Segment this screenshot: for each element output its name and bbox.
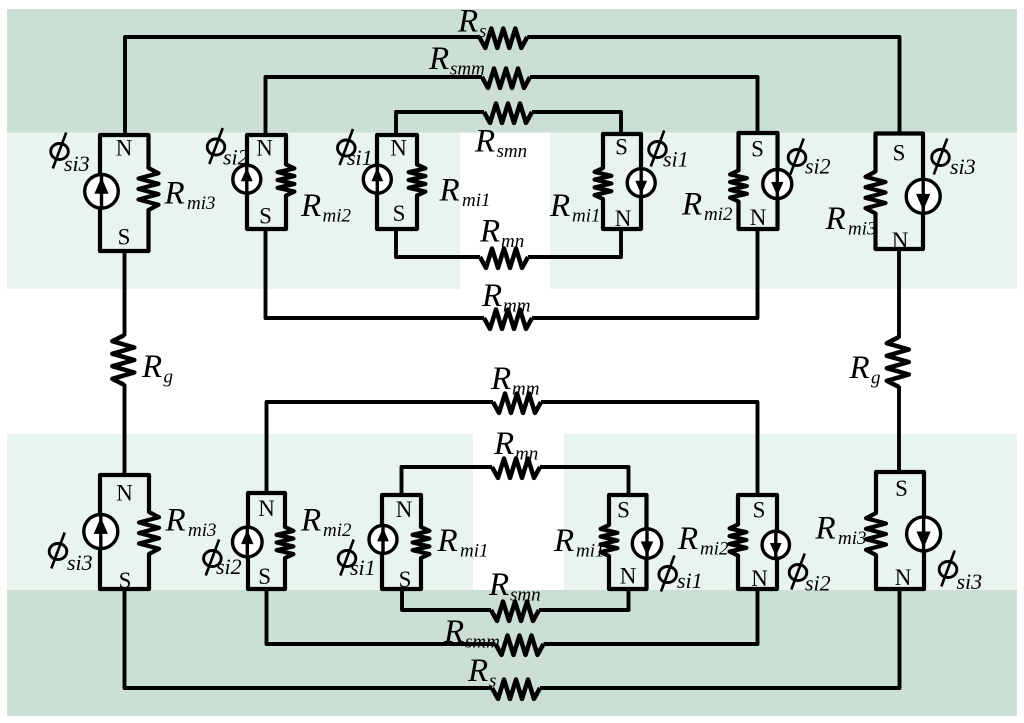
svg-text:mn: mn: [501, 231, 524, 252]
label R_mi1 top-left: [439, 173, 491, 212]
svg-text:mi3: mi3: [187, 193, 216, 214]
svg-text:R: R: [488, 567, 509, 603]
resistor R_smm bottom: [496, 636, 544, 655]
svg-text:S: S: [118, 225, 131, 250]
svg-text:s: s: [479, 21, 486, 42]
svg-text:smn: smn: [510, 585, 541, 606]
svg-text:mi2: mi2: [700, 539, 729, 560]
svg-text:R: R: [141, 349, 162, 385]
magnet box B12 phi_si3 bottom-right: [866, 472, 924, 589]
svg-text:si2: si2: [805, 154, 831, 179]
flux source phi_si1 top-left: [363, 164, 391, 195]
svg-text:si2: si2: [223, 145, 249, 170]
svg-text:N: N: [615, 206, 632, 231]
svg-text:R: R: [164, 176, 185, 212]
svg-text:R: R: [479, 214, 500, 250]
magnet region band (lower): [7, 434, 1017, 590]
svg-text:smm: smm: [450, 58, 485, 79]
svg-text:si3: si3: [950, 154, 976, 179]
label R_smm bottom: [443, 614, 500, 653]
label phi_si3 top-left: [51, 133, 90, 177]
label R_mm top: [481, 278, 530, 317]
svg-text:R: R: [428, 41, 449, 77]
resistor R_smn bottom: [491, 602, 539, 621]
magnet box B11 phi_si2 bottom-right: [730, 495, 777, 589]
label R_mm bottom: [490, 361, 539, 400]
svg-text:R: R: [849, 350, 870, 386]
label phi_si1 top-right: [649, 131, 689, 172]
svg-text:R: R: [474, 124, 495, 160]
svg-text:N: N: [390, 135, 407, 160]
svg-text:S: S: [258, 564, 271, 589]
svg-text:mi1: mi1: [572, 206, 601, 227]
label R_s bottom: [467, 653, 496, 692]
label R_smn bottom: [488, 567, 541, 606]
svg-text:N: N: [396, 497, 413, 522]
label phi_si2 bottom-left: [204, 540, 242, 580]
label phi_si1 bottom-right: [659, 556, 703, 594]
magnet box B3 phi_si1 top-left: [377, 135, 425, 229]
stator yoke band (top): [7, 9, 1017, 133]
svg-text:R: R: [439, 173, 460, 209]
svg-text:si1: si1: [347, 145, 373, 170]
svg-text:smn: smn: [497, 141, 528, 162]
svg-text:si2: si2: [805, 571, 831, 596]
label phi_si1 bottom-left: [338, 540, 375, 581]
flux source phi_si3 bottom-right: [907, 515, 941, 552]
svg-text:R: R: [553, 523, 574, 559]
label R_mi2 bottom-left: [300, 503, 352, 542]
wire: R_smn bottom loop: [402, 589, 491, 610]
label R_mi1 bottom-left: [437, 523, 489, 562]
label R_mi1 bottom-right: [553, 523, 605, 562]
label phi_si3 bottom-right: [939, 551, 982, 595]
label R_g left: [141, 349, 173, 388]
wire: R_smm bottom loop: [267, 589, 496, 644]
wire: R_g left: [123, 251, 127, 336]
label R_mi3 top-right: [825, 201, 877, 240]
resistor R_mn bottom: [492, 459, 540, 478]
label R_mi1 top-right: [549, 188, 601, 227]
label R_mn bottom: [493, 426, 538, 465]
label phi_si2 top-right: [788, 139, 830, 179]
label R_mi2 top-right: [681, 187, 733, 226]
svg-text:R: R: [300, 188, 321, 224]
flux source phi_si2 top-left: [233, 164, 261, 195]
resistor R_g right: [887, 337, 909, 387]
magnet box B2 phi_si2 top-left: [247, 135, 294, 229]
svg-text:si1: si1: [663, 147, 689, 172]
wire: R_smm top loop: [266, 77, 483, 135]
flux source phi_si3 top-left: [85, 173, 119, 210]
svg-text:R: R: [825, 201, 846, 237]
svg-text:N: N: [751, 566, 768, 591]
svg-text:N: N: [116, 481, 133, 506]
svg-text:mm: mm: [503, 296, 530, 317]
svg-text:R: R: [300, 503, 321, 539]
resistor R_mn top: [480, 249, 528, 268]
wire: R_mm top loop: [266, 229, 485, 318]
svg-text:si3: si3: [64, 151, 90, 176]
flux source phi_si2 bottom-right: [762, 530, 789, 561]
resistor R_s top: [479, 29, 527, 48]
label phi_si3 bottom-left: [49, 533, 92, 576]
svg-text:S: S: [119, 568, 132, 593]
svg-text:R: R: [677, 521, 698, 557]
svg-text:S: S: [617, 498, 630, 523]
label R_mn top: [479, 214, 524, 253]
label R_mi3 bottom-left: [165, 503, 217, 542]
svg-text:si1: si1: [350, 555, 376, 580]
magnet box B10 phi_si1 bottom-right: [601, 495, 647, 589]
svg-text:N: N: [258, 496, 275, 521]
wire: R_mm bottom loop: [267, 402, 494, 493]
magnet box B4 phi_si1 top-right: [595, 134, 641, 229]
label R_smn top: [474, 124, 527, 163]
label phi_si1 top-left: [338, 129, 373, 170]
magnet box B6 phi_si3 top-right: [866, 134, 924, 250]
flux source phi_si3 top-right: [906, 178, 940, 215]
svg-text:mi3: mi3: [188, 520, 217, 541]
svg-text:S: S: [615, 135, 628, 160]
svg-text:S: S: [751, 136, 764, 161]
svg-text:S: S: [895, 476, 908, 501]
svg-text:N: N: [116, 136, 133, 161]
flux source phi_si2 bottom-left: [233, 526, 263, 559]
label phi_si3 top-right: [932, 139, 976, 180]
stator yoke band (bottom): [7, 590, 1017, 716]
svg-text:g: g: [164, 367, 174, 388]
svg-text:S: S: [259, 204, 272, 229]
svg-text:mm: mm: [512, 379, 539, 400]
label R_mi3 top-left: [164, 176, 216, 215]
label R_mi3 bottom-right: [815, 511, 867, 550]
svg-text:si3: si3: [957, 569, 983, 594]
magnet box B9 phi_si1 bottom-left: [382, 495, 429, 589]
wire: R_s bottom loop: [125, 589, 493, 688]
svg-text:si1: si1: [677, 568, 703, 593]
magnet box B1 phi_si3 top-left: [100, 135, 159, 251]
label phi_si2 bottom-right: [789, 554, 830, 596]
magnet box B8 phi_si2 bottom-left: [248, 493, 293, 589]
wire: R_g right: [897, 249, 901, 338]
resistor R_smn top: [484, 104, 532, 123]
label R_smm top: [428, 41, 485, 79]
svg-text:N: N: [895, 565, 912, 590]
flux source phi_si3 bottom-left: [84, 513, 118, 550]
resistor R_mm bottom: [493, 394, 541, 413]
svg-text:mi1: mi1: [460, 541, 489, 562]
svg-text:N: N: [256, 136, 273, 161]
svg-text:g: g: [871, 368, 881, 389]
svg-text:N: N: [620, 564, 637, 589]
svg-text:R: R: [815, 511, 836, 547]
svg-text:R: R: [490, 361, 511, 397]
svg-text:s: s: [489, 671, 496, 692]
svg-text:R: R: [681, 187, 702, 223]
label R_mi2 top-left: [300, 188, 352, 227]
magnet box B5 phi_si2 top-right: [730, 133, 777, 229]
svg-text:si2: si2: [216, 554, 242, 579]
svg-text:R: R: [549, 188, 570, 224]
label R_s top: [457, 4, 486, 43]
svg-text:S: S: [893, 141, 906, 166]
svg-text:mi3: mi3: [848, 219, 877, 240]
label R_g right: [849, 350, 881, 389]
resistor R_s bottom: [492, 680, 540, 699]
svg-text:N: N: [750, 205, 767, 230]
wire: R_mn bottom loop: [402, 467, 493, 495]
resistor R_g left: [112, 335, 134, 385]
label phi_si2 top-left: [207, 128, 248, 170]
svg-text:R: R: [437, 523, 458, 559]
air-gap white strip (lower center): [473, 434, 564, 590]
flux source phi_si1 bottom-left: [369, 524, 397, 555]
svg-text:R: R: [457, 4, 478, 40]
flux source phi_si2 top-right: [763, 168, 792, 200]
svg-text:S: S: [753, 498, 766, 523]
magnet box B7 phi_si3 bottom-left: [100, 475, 159, 589]
resistor R_smm top: [482, 69, 530, 88]
air-gap white strip (upper center): [460, 133, 550, 290]
svg-text:S: S: [393, 201, 406, 226]
svg-text:R: R: [493, 426, 514, 462]
svg-text:R: R: [165, 503, 186, 539]
svg-text:mi2: mi2: [323, 520, 352, 541]
svg-text:si3: si3: [67, 550, 93, 575]
resistor R_mm top: [484, 310, 532, 329]
svg-text:R: R: [443, 614, 464, 650]
svg-text:mi2: mi2: [704, 204, 733, 225]
wire: R_s top loop: [125, 37, 479, 135]
magnet region band (upper): [7, 133, 1017, 290]
svg-text:mi2: mi2: [323, 206, 352, 227]
flux source phi_si1 top-right: [627, 167, 655, 198]
svg-text:mi1: mi1: [576, 541, 605, 562]
flux source phi_si1 bottom-right: [632, 527, 661, 560]
svg-text:mn: mn: [515, 444, 538, 465]
svg-text:R: R: [481, 278, 502, 314]
svg-text:N: N: [892, 228, 909, 253]
svg-text:S: S: [399, 567, 412, 592]
label R_mi2 bottom-right: [677, 521, 729, 560]
wire: R_mn top loop: [396, 229, 480, 257]
wire: R_smn top loop: [396, 112, 484, 135]
svg-text:mi3: mi3: [838, 528, 867, 549]
svg-text:R: R: [467, 653, 488, 689]
svg-text:smm: smm: [465, 632, 500, 653]
svg-text:mi1: mi1: [462, 190, 491, 211]
